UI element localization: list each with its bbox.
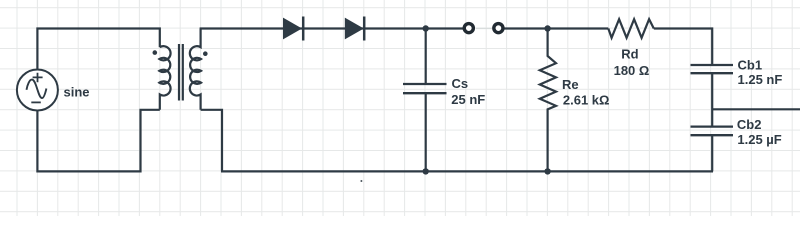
wire: source top to transformer primary	[37, 29, 159, 70]
svg-text:sine: sine	[64, 84, 90, 99]
wire: primary bottom to source bottom	[37, 110, 159, 172]
node dot: Re bottom	[544, 168, 550, 174]
wire: Cb1 to Cb2	[711, 73, 713, 126]
diode D1 triangle	[283, 18, 302, 40]
wire: D1 to D2	[303, 27, 364, 29]
stray dot annotation	[360, 180, 362, 182]
voltage source V1 plus sign	[33, 73, 43, 82]
capacitor Cb1 plates	[691, 65, 734, 73]
svg-text:1.25 nF: 1.25 nF	[738, 72, 783, 87]
wire: port to Rd	[505, 27, 609, 29]
voltage source V1 circle	[17, 70, 58, 111]
polarity dot primary	[153, 50, 158, 55]
wire: secondary top to diode D1	[200, 27, 303, 29]
node dot: Cs top	[423, 25, 429, 31]
wire: secondary bottom jog	[201, 110, 222, 172]
node dot: Re top	[544, 25, 550, 31]
wire: bottom rail	[221, 170, 713, 172]
svg-text:1.25 µF: 1.25 µF	[737, 132, 781, 147]
svg-text:Cb1: Cb1	[738, 57, 763, 72]
wire: Cb2 to bottom rail	[711, 135, 713, 171]
capacitor Cs plates	[403, 84, 447, 93]
port terminal 1	[464, 24, 473, 33]
svg-text:Rd: Rd	[621, 46, 638, 61]
svg-text:25 nF: 25 nF	[451, 92, 485, 107]
inductor L1 primary winding	[159, 46, 170, 110]
voltage source V1 sine symbol	[27, 80, 47, 99]
svg-text:Re: Re	[562, 77, 579, 92]
diode D2 cathode bar	[363, 17, 366, 41]
transformer T1 core	[179, 44, 183, 101]
polarity dot secondary	[203, 51, 208, 56]
resistor Re	[540, 29, 556, 172]
voltage source V1 minus sign	[31, 101, 41, 103]
svg-text:Cb2: Cb2	[737, 117, 762, 132]
port terminal 2	[494, 24, 503, 33]
svg-text:Cs: Cs	[452, 76, 469, 91]
diode D1 cathode bar	[302, 17, 305, 41]
inductor L2 secondary winding	[190, 29, 201, 110]
diode D2 triangle	[345, 18, 364, 40]
capacitor Cb2 plates	[691, 127, 734, 136]
resistor Rd	[608, 19, 654, 38]
node dot: Cs bottom	[423, 168, 429, 174]
wire: mid branch to right edge	[712, 108, 800, 110]
wire: faint port link	[476, 27, 493, 29]
wire: Rd to Cb1	[654, 29, 712, 66]
svg-text:180 Ω: 180 Ω	[614, 63, 650, 78]
svg-text:2.61 kΩ: 2.61 kΩ	[563, 92, 610, 107]
wire: D2 to port	[364, 27, 463, 29]
capacitor Cs leads	[425, 29, 427, 172]
